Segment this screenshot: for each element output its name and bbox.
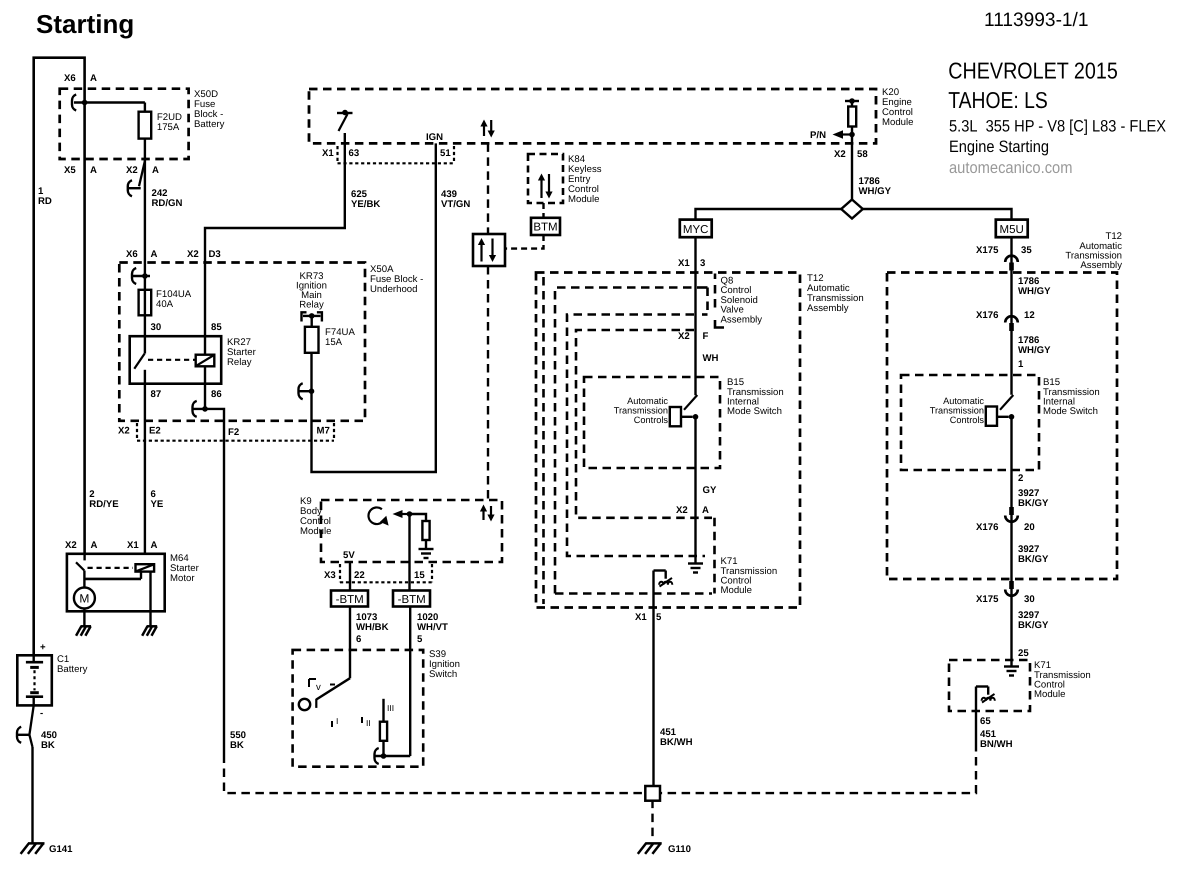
switch B15 left dashed box xyxy=(584,377,720,468)
svg-text:3: 3 xyxy=(700,258,705,269)
svg-text:X2: X2 xyxy=(118,426,130,437)
svg-text:X2: X2 xyxy=(65,540,77,551)
solenoid ground right xyxy=(149,572,151,626)
svg-text:15: 15 xyxy=(414,570,425,581)
wire 451 BK/WH xyxy=(652,607,654,786)
connector clip X6 A with junction xyxy=(72,95,76,111)
svg-text:A: A xyxy=(151,540,158,551)
svg-text:RD: RD xyxy=(38,196,52,207)
svg-text:BK: BK xyxy=(41,740,55,751)
svg-text:Battery: Battery xyxy=(57,664,88,675)
dashed drop to G110 xyxy=(651,800,653,838)
battery C1 xyxy=(17,655,52,705)
svg-text:BK: BK xyxy=(230,740,244,751)
motor M circle xyxy=(74,588,95,609)
splice diamond node xyxy=(841,200,863,219)
svg-text:P/N: P/N xyxy=(810,130,826,141)
ground G141 xyxy=(28,842,45,845)
splice square xyxy=(645,786,660,801)
svg-text:X176: X176 xyxy=(976,310,998,321)
case ground K71 right xyxy=(976,685,988,687)
svg-text:A: A xyxy=(702,505,709,516)
svg-text:Module: Module xyxy=(1034,689,1065,700)
svg-text:25: 25 xyxy=(1018,648,1029,659)
svg-text:X1: X1 xyxy=(635,612,647,623)
relay KR27 coil xyxy=(204,336,206,355)
wire 5V to BTM 22 xyxy=(349,561,351,591)
-BTM box right xyxy=(393,591,430,607)
svg-text:X1: X1 xyxy=(322,148,334,159)
svg-text:Controls: Controls xyxy=(634,415,669,425)
svg-text:G110: G110 xyxy=(668,844,691,855)
svg-text:Module: Module xyxy=(568,194,599,205)
svg-text:Starting: Starting xyxy=(36,9,134,39)
svg-text:TAHOE: LS: TAHOE: LS xyxy=(948,87,1048,113)
svg-text:BTM: BTM xyxy=(533,222,557,234)
svg-text:Mode Switch: Mode Switch xyxy=(1043,406,1098,417)
svg-text:Automatic: Automatic xyxy=(943,396,984,406)
svg-text:5: 5 xyxy=(417,634,423,645)
svg-text:X6: X6 xyxy=(64,73,76,84)
BTM box xyxy=(542,203,544,218)
svg-text:85: 85 xyxy=(211,322,222,333)
wire GY xyxy=(694,417,696,564)
svg-text:30: 30 xyxy=(1024,594,1035,605)
ground G110 xyxy=(645,842,662,845)
wire M5U drop xyxy=(1010,237,1012,395)
svg-text:+: + xyxy=(40,642,46,653)
arrow into node xyxy=(393,510,403,518)
svg-text:Controls: Controls xyxy=(950,415,985,425)
mode switch lever right xyxy=(1000,395,1013,410)
bus wire to MYC and M5U xyxy=(696,209,842,220)
svg-text:15A: 15A xyxy=(325,337,343,348)
wire 1073 into switch xyxy=(349,607,351,679)
resistor element K20 crank request xyxy=(845,100,859,102)
P/N arrow xyxy=(849,132,855,138)
fuse F104UA 40A xyxy=(139,290,152,316)
svg-text:X2: X2 xyxy=(187,249,199,260)
svg-text:RD/YE: RD/YE xyxy=(89,499,119,510)
wire MYC to B15 left xyxy=(694,237,696,395)
connector X175 35 xyxy=(1005,256,1018,262)
fuse F2UD 175A xyxy=(144,103,146,112)
svg-text:F2: F2 xyxy=(228,427,239,438)
svg-text:A: A xyxy=(90,73,97,84)
solenoid coil M64 xyxy=(136,564,155,571)
svg-text:BK/GY: BK/GY xyxy=(1018,498,1049,509)
svg-text:2: 2 xyxy=(1018,473,1023,484)
svg-text:WH: WH xyxy=(703,353,719,364)
svg-text:12: 12 xyxy=(1024,310,1035,321)
svg-text:Mode Switch: Mode Switch xyxy=(727,406,782,417)
svg-text:-BTM: -BTM xyxy=(398,594,426,606)
fuse block X50A dashed box xyxy=(119,263,365,421)
switch B15 right dashed box xyxy=(901,375,1039,470)
connector clip X6 A inside X50A xyxy=(132,268,136,284)
svg-text:G141: G141 xyxy=(49,844,73,855)
svg-text:30: 30 xyxy=(151,322,162,333)
svg-text:1: 1 xyxy=(1018,359,1024,370)
wire 3927 BK/GY xyxy=(1010,417,1012,667)
svg-text:X3: X3 xyxy=(324,570,336,581)
fuse block X50D dashed box xyxy=(60,89,189,159)
svg-text:86: 86 xyxy=(211,389,222,400)
module box ignition bus dashed xyxy=(309,89,876,143)
wire 625 YE/BK xyxy=(205,133,345,336)
svg-text:BK/WH: BK/WH xyxy=(660,737,693,748)
off-page arrow box xyxy=(473,234,505,266)
svg-text:III: III xyxy=(387,703,394,713)
svg-text:I: I xyxy=(336,716,338,726)
relay KR27 coil link dashed xyxy=(148,359,195,361)
svg-text:58: 58 xyxy=(857,149,868,160)
inner dashed box 3 xyxy=(555,288,694,594)
module K71 right dashed box xyxy=(949,660,1030,711)
inline connector X2 A jog xyxy=(139,161,145,187)
svg-text:Engine Starting: Engine Starting xyxy=(949,138,1049,156)
wire M7 to 439 VT/GN xyxy=(310,353,312,391)
svg-text:BK/GY: BK/GY xyxy=(1018,554,1049,565)
svg-text:5V: 5V xyxy=(343,550,355,561)
svg-text:A: A xyxy=(90,165,97,176)
position mark II xyxy=(361,717,363,723)
svg-text:YE/BK: YE/BK xyxy=(351,199,380,210)
svg-text:X6: X6 xyxy=(126,249,138,260)
svg-text:63: 63 xyxy=(349,148,360,159)
svg-text:X2: X2 xyxy=(676,505,688,516)
motor ground left xyxy=(83,609,85,627)
switch S39 dashed box xyxy=(293,650,424,767)
svg-text:WH/VT: WH/VT xyxy=(417,622,448,633)
inner dashed box 2 left edge xyxy=(542,277,545,604)
svg-text:X2: X2 xyxy=(834,149,846,160)
svg-text:Transmission: Transmission xyxy=(930,406,984,416)
wire 242 RD/GN xyxy=(144,139,146,337)
svg-text:20: 20 xyxy=(1024,522,1035,533)
wire 1 RD battery positive riser xyxy=(34,58,85,656)
svg-text:WH/GY: WH/GY xyxy=(1018,286,1051,297)
connector X176 20 xyxy=(1009,507,1014,515)
controls box left xyxy=(670,407,681,426)
svg-text:Module: Module xyxy=(300,526,331,537)
solenoid contact bar xyxy=(84,578,141,581)
svg-text:35: 35 xyxy=(1021,245,1032,256)
lock position mark xyxy=(308,679,310,687)
-BTM box left xyxy=(331,591,368,607)
position mark I xyxy=(331,721,333,727)
connector strip X1 xyxy=(336,146,338,163)
wire to pin 5 xyxy=(381,753,387,759)
svg-text:6: 6 xyxy=(356,634,361,645)
svg-text:BK/GY: BK/GY xyxy=(1018,620,1049,631)
svg-text:F: F xyxy=(703,331,709,342)
resistor in S39 xyxy=(382,699,384,722)
starter M64 box xyxy=(67,554,165,612)
svg-text:automecanico.com: automecanico.com xyxy=(949,159,1073,177)
svg-text:GY: GY xyxy=(703,485,717,496)
svg-text:D3: D3 xyxy=(209,249,221,260)
X2 bottom connector strip xyxy=(136,423,138,441)
svg-text:-BTM: -BTM xyxy=(336,594,364,606)
controls box right xyxy=(986,407,997,426)
svg-text:Relay: Relay xyxy=(227,357,252,368)
svg-text:X1: X1 xyxy=(127,540,139,551)
svg-text:87: 87 xyxy=(151,389,162,400)
svg-text:65: 65 xyxy=(980,716,991,727)
svg-text:A: A xyxy=(151,249,158,260)
svg-text:Transmission: Transmission xyxy=(614,406,668,416)
connector strip X3 xyxy=(339,564,341,582)
svg-text:5: 5 xyxy=(656,612,662,623)
svg-text:X175: X175 xyxy=(976,594,999,605)
dashed link BTM to arrow box xyxy=(505,235,544,249)
solenoid contact lever M64 xyxy=(83,554,85,561)
up/down arrows in bus box xyxy=(483,125,485,137)
svg-text:X5: X5 xyxy=(64,165,76,176)
svg-text:X175: X175 xyxy=(976,245,999,256)
svg-text:X2: X2 xyxy=(126,165,138,176)
ignition switch pivot circle xyxy=(299,699,310,710)
svg-text:M7: M7 xyxy=(317,426,330,437)
svg-text:IGN: IGN xyxy=(426,132,443,143)
wire 450 BK with inline connector xyxy=(29,705,33,734)
case ground K71 left xyxy=(654,569,666,571)
svg-text:X1: X1 xyxy=(678,258,690,269)
svg-text:MYC: MYC xyxy=(683,224,709,236)
svg-text:Relay: Relay xyxy=(299,300,324,311)
connector X175 30 xyxy=(1009,581,1014,589)
assembly T12 right dashed box xyxy=(887,273,1117,580)
pull-up resistor and ground in K9 xyxy=(410,514,427,521)
svg-text:M: M xyxy=(79,592,89,606)
fuse M5U box xyxy=(996,220,1028,238)
svg-text:51: 51 xyxy=(440,148,451,159)
inner dashed box 5 with X2 boundary xyxy=(576,330,712,518)
mode switch lever left xyxy=(684,395,697,410)
svg-text:YE: YE xyxy=(151,499,164,510)
svg-text:VT/GN: VT/GN xyxy=(441,199,470,210)
relay KR73 contact symbol xyxy=(302,312,307,321)
svg-text:5.3L 355 HP - V8 [C] L83 - FL: 5.3L 355 HP - V8 [C] L83 - FLEX xyxy=(949,118,1166,136)
svg-text:M5U: M5U xyxy=(1000,224,1024,236)
rotation sensor arrow xyxy=(368,507,383,524)
svg-text:A: A xyxy=(91,540,98,551)
svg-text:WH/BK: WH/BK xyxy=(356,622,389,633)
svg-text:Switch: Switch xyxy=(429,669,457,680)
svg-text:175A: 175A xyxy=(157,122,180,133)
solenoid link dashed M64 xyxy=(88,567,134,569)
svg-text:A: A xyxy=(152,165,159,176)
ignition switch lever xyxy=(316,678,350,699)
up/down arrows in K9 xyxy=(482,510,484,521)
svg-text:22: 22 xyxy=(354,570,365,581)
module K84 dashed box xyxy=(528,154,563,203)
wire pin 86 to F2 xyxy=(204,384,206,409)
svg-text:WH/GY: WH/GY xyxy=(1018,345,1051,356)
dashed drop to K9 xyxy=(487,143,489,234)
fuse F74UA 15A xyxy=(311,316,313,327)
svg-text:Module: Module xyxy=(721,585,752,596)
wire 1786 WH/GY K20 drop xyxy=(851,135,853,200)
svg-text:X2: X2 xyxy=(678,331,690,342)
svg-text:v: v xyxy=(316,682,321,693)
ignition switch contact xyxy=(337,112,353,114)
svg-text:RD/GN: RD/GN xyxy=(152,198,183,209)
svg-text:Module: Module xyxy=(882,117,913,128)
svg-text:-: - xyxy=(40,708,43,719)
relay KR27 contact lever xyxy=(144,336,146,353)
svg-text:Underhood: Underhood xyxy=(370,284,417,295)
inner dashed box 4 xyxy=(567,315,705,557)
svg-text:E2: E2 xyxy=(149,426,161,437)
module K9 dashed box xyxy=(321,500,502,562)
svg-text:WH/GY: WH/GY xyxy=(859,186,892,197)
dashed run right from square xyxy=(659,743,976,793)
wire 6 YE pin87 riser xyxy=(144,384,146,554)
relay KR27 box xyxy=(130,336,222,384)
svg-text:Assembly: Assembly xyxy=(721,314,763,325)
svg-text:II: II xyxy=(366,718,371,728)
svg-text:Automatic: Automatic xyxy=(627,396,668,406)
svg-text:Battery: Battery xyxy=(194,119,225,130)
svg-text:1113993-1/1: 1113993-1/1 xyxy=(984,9,1089,31)
svg-text:Assembly: Assembly xyxy=(1080,260,1122,271)
Q8 label bracket xyxy=(714,274,717,280)
svg-text:Assembly: Assembly xyxy=(807,303,849,314)
fuse MYC box xyxy=(680,220,712,238)
dashed ground run 550 BK xyxy=(224,755,646,794)
wire to BTM 15 xyxy=(408,514,410,591)
svg-text:Motor: Motor xyxy=(170,573,195,584)
svg-text:BN/WH: BN/WH xyxy=(980,739,1013,750)
earth ground in K71 right xyxy=(1004,665,1019,667)
svg-text:X176: X176 xyxy=(976,522,998,533)
assembly T12 left dashed box xyxy=(536,273,800,608)
svg-text:40A: 40A xyxy=(156,299,174,310)
svg-text:CHEVROLET 2015: CHEVROLET 2015 xyxy=(948,58,1118,84)
earth ground in K71 left xyxy=(688,562,703,564)
